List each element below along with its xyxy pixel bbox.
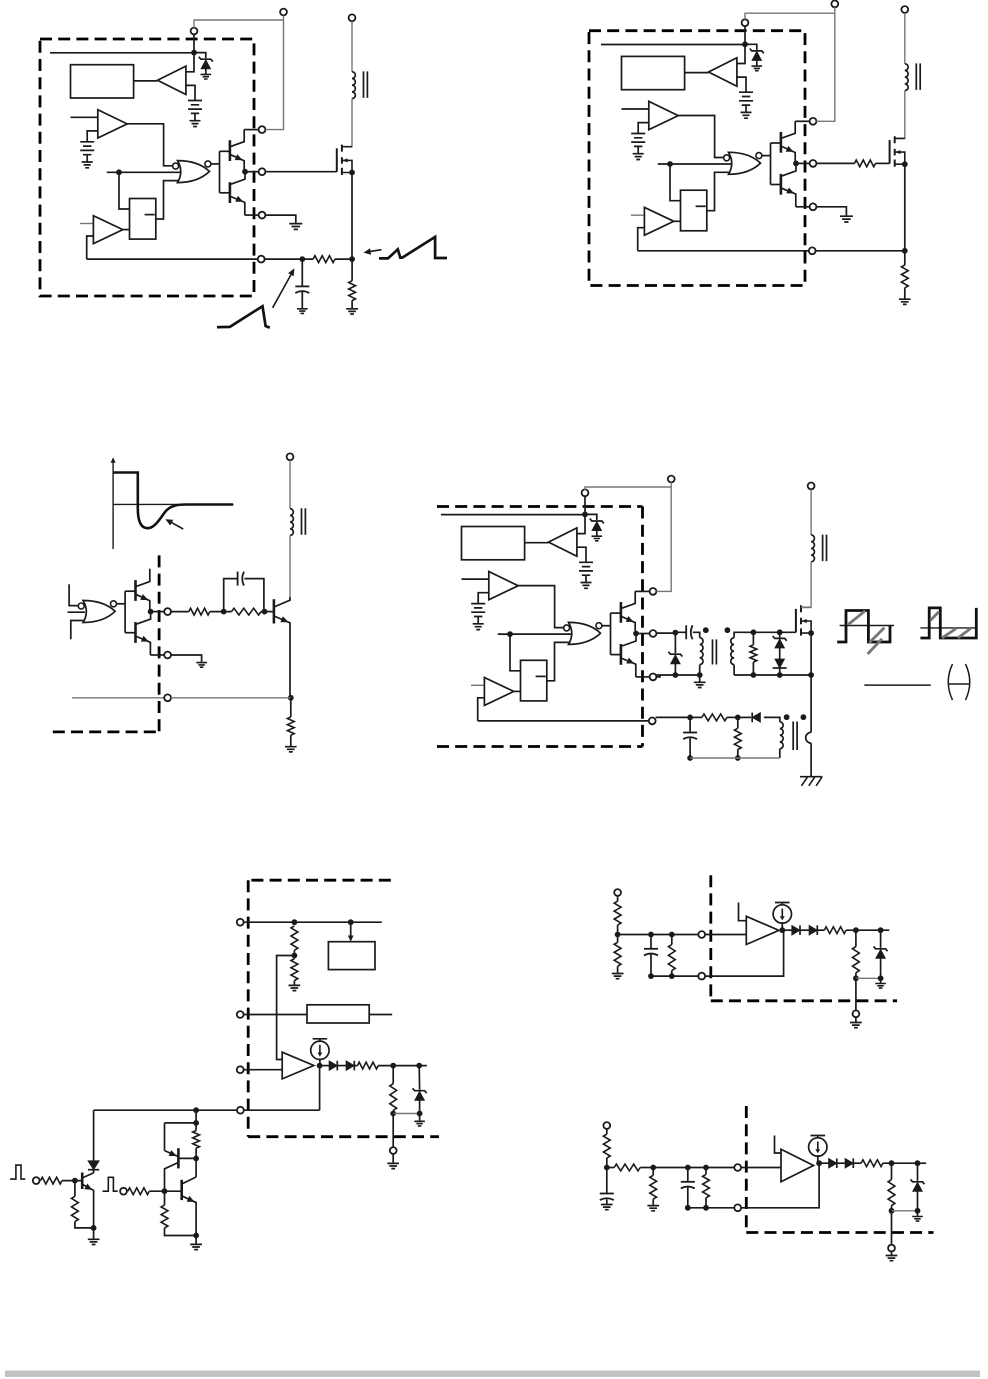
C4 lower stub xyxy=(689,738,691,758)
graph pointer arrowhead xyxy=(165,519,173,525)
U1 reference block xyxy=(71,65,134,98)
secondary top rail xyxy=(734,632,796,638)
U2 node osc xyxy=(667,161,673,167)
wire sense resistor xyxy=(351,259,353,281)
node Z3 bottom xyxy=(417,1111,423,1117)
transistor Q10 base bar xyxy=(177,1148,180,1168)
ground (R27) xyxy=(647,1206,659,1211)
zener Z5 xyxy=(911,1179,925,1191)
U2 VCC pin stub xyxy=(795,120,809,122)
U2 lower base wire xyxy=(771,184,781,186)
wire J3 to VCC pin xyxy=(816,7,834,121)
U2 wire osc to latch xyxy=(670,164,681,201)
U4 transistor Q1 base bar xyxy=(620,602,623,623)
wire source to sense node xyxy=(904,164,906,251)
U1 comparator1 + input xyxy=(71,116,98,118)
ground (C6) xyxy=(601,1205,613,1210)
node RT divider xyxy=(292,919,298,925)
resistor R24 xyxy=(853,947,860,973)
U3 Q6 collector xyxy=(137,612,151,625)
U4 comparator 2 xyxy=(484,678,513,706)
resistor R28 xyxy=(703,1174,710,1197)
wire CS winding to earth xyxy=(810,743,812,777)
U2 OUT pin xyxy=(810,160,817,167)
resistor R1 xyxy=(313,256,335,263)
gate waveform axis 1 xyxy=(840,625,894,627)
U5 boundary left (dashed) xyxy=(247,880,250,1136)
wire R23 to clamp 6a xyxy=(846,929,889,931)
resistor R3 xyxy=(855,160,876,167)
wire OUT pin to gate xyxy=(265,171,336,173)
U1 gate output wire xyxy=(211,163,220,165)
wire to R24 xyxy=(855,930,857,946)
U4 oscillator input wire xyxy=(498,633,571,635)
R7 ground stem xyxy=(290,735,292,746)
ground (Z3) xyxy=(414,1121,425,1126)
J11 to R25 xyxy=(606,1129,608,1134)
wire to R16 xyxy=(74,1181,76,1197)
timing block xyxy=(307,1005,369,1023)
node clamp 6a-1 xyxy=(853,927,859,933)
Z4 ground stem xyxy=(880,978,882,983)
U2 Q2 emitter xyxy=(782,188,796,207)
U4 comparator 1 xyxy=(489,572,518,600)
U2 current sense line xyxy=(638,250,809,252)
transformer terminal J4 xyxy=(901,6,908,13)
graph axis arrowhead xyxy=(111,457,116,463)
U2 buffer bias wire xyxy=(737,77,746,92)
waveform 1 hatch xyxy=(848,611,884,654)
U6 boundary left (dashed) xyxy=(709,875,712,1001)
U4 OUT pin xyxy=(650,630,657,637)
FB line 6a xyxy=(618,934,699,936)
U2 zener ground stem xyxy=(756,61,758,66)
node Q9 base xyxy=(72,1178,78,1184)
sync pin wire xyxy=(244,1069,283,1071)
U2 oscillator input wire xyxy=(658,163,731,165)
wire D7 to D8 xyxy=(800,929,809,931)
U6 lower pin xyxy=(853,1010,860,1017)
graph vertical axis xyxy=(112,460,114,549)
U2 NOR gate xyxy=(724,152,762,174)
resistor R25 xyxy=(603,1134,610,1158)
U4 PWM latch xyxy=(521,660,547,701)
U2 Q2 collector xyxy=(782,163,796,176)
U3 gate output wire xyxy=(117,603,126,605)
U3 driver base trunk xyxy=(124,591,126,633)
wire CS pin to sense node xyxy=(816,250,905,252)
U1 lower base wire xyxy=(220,192,230,194)
divider terminal J10 xyxy=(614,889,621,896)
transformer T2 primary xyxy=(905,64,908,91)
wire R18 to Q11 base xyxy=(149,1190,181,1192)
U5 boundary top (dashed) xyxy=(251,879,391,882)
FB pin to amp 6b xyxy=(741,1167,781,1169)
earth ground (hatched) xyxy=(800,777,822,786)
wire R13 to clamp xyxy=(378,1065,427,1067)
U3 Q6 emitter arrow xyxy=(141,636,149,642)
node clamp 6b-2 xyxy=(915,1160,921,1166)
back-to-back zener Z2b xyxy=(773,659,787,668)
R28 upper stub xyxy=(705,1168,707,1175)
Q11 collector diag xyxy=(183,1177,196,1184)
Z3 ground stem xyxy=(419,1114,421,1122)
resistor R11 xyxy=(291,926,298,950)
U4 boundary right (dashed) xyxy=(641,507,644,747)
C7 lower stub xyxy=(687,1188,689,1208)
footer separator bar xyxy=(5,1371,980,1378)
rail ground stem xyxy=(699,675,701,682)
rail node Z1 xyxy=(673,672,679,678)
U2 comparator2 + stub xyxy=(631,214,644,216)
MOSFET Q8 xyxy=(796,605,814,636)
resistor R12 xyxy=(291,959,298,981)
R10 lower stub xyxy=(737,750,739,759)
U5 boundary bottom (dashed) xyxy=(248,1135,439,1138)
resistor R13 xyxy=(358,1062,379,1069)
U2 Q1 collector xyxy=(782,121,795,138)
node Q10 base xyxy=(193,1156,199,1162)
wire speedup cap right xyxy=(244,579,264,612)
U1 comparator 1 xyxy=(98,110,127,138)
wire to oscillator block xyxy=(350,922,352,937)
A2 reference stub xyxy=(739,903,747,921)
node R24 bottom xyxy=(853,975,859,981)
capacitor C4 xyxy=(683,733,697,740)
node base network 1 xyxy=(221,609,227,615)
U1 Q1 emitter arrow xyxy=(235,154,243,160)
U4 lower base wire xyxy=(611,654,621,656)
ground (Q11) xyxy=(190,1244,202,1249)
U2 IC boundary (dashed) xyxy=(589,31,805,286)
U4 reference battery 1 xyxy=(579,562,593,588)
rail node T4p xyxy=(697,672,703,678)
U1 CS pin xyxy=(258,256,265,263)
U3 lower base wire xyxy=(125,632,135,634)
node R28 bottom xyxy=(703,1205,709,1211)
T6 secondary phase dot xyxy=(784,714,790,720)
U2 wire rail to buffer xyxy=(737,44,745,63)
wire R6 to node xyxy=(261,611,265,613)
node CS filter 2 xyxy=(735,715,741,721)
rail node R8 bottom xyxy=(751,672,757,678)
U1 VREF pin xyxy=(191,28,198,35)
U1 comparator2 - input wire xyxy=(87,236,94,259)
I3 to output node xyxy=(817,1155,819,1163)
wire source to sense node xyxy=(351,173,353,260)
U2 comparator1 + input xyxy=(622,108,649,110)
wire D5 to R13 xyxy=(354,1065,357,1067)
U2 internal VREF rail xyxy=(601,44,745,46)
U4 driver output node xyxy=(633,631,639,637)
U4 gate output wire xyxy=(602,625,611,627)
comp pin to output node xyxy=(705,930,784,976)
wire R15 to Q9 base xyxy=(62,1180,82,1182)
Q7 emitter arrow xyxy=(280,616,288,622)
diode D6 xyxy=(88,1161,99,1170)
clamp bottom link 6b xyxy=(892,1210,918,1212)
U2 buffer amplifier xyxy=(709,58,737,86)
node osc block xyxy=(348,919,354,925)
T4 secondary phase dot xyxy=(725,627,731,633)
U1 Q1 collector xyxy=(231,130,244,147)
wire R9 to node xyxy=(727,716,738,718)
wire J2 to primary xyxy=(351,21,353,72)
U2 driver base trunk xyxy=(770,143,772,185)
U4 buffer bias wire xyxy=(577,547,586,562)
U2 comparator2 - input wire xyxy=(638,228,645,251)
wire R3 to gate xyxy=(876,162,890,164)
U4 Q1 emitter arrow xyxy=(626,616,634,622)
U4 reference block xyxy=(462,527,525,560)
filter waveform pointer arrowhead xyxy=(288,268,294,276)
T4 primary phase dot xyxy=(703,627,709,633)
U3 transistor Q6 base bar xyxy=(134,622,137,643)
U1 Q2 emitter arrow xyxy=(235,196,243,202)
wire B left down xyxy=(164,1123,166,1151)
R21 ground stem xyxy=(617,966,619,973)
node C7 top xyxy=(685,1165,691,1171)
ground (R2) xyxy=(346,309,358,314)
R8 lower stub xyxy=(752,662,754,675)
transistor Q7 base bar xyxy=(273,599,276,623)
U1 Q2 emitter xyxy=(231,197,245,216)
node base network 2 xyxy=(262,609,268,615)
node Z5 bottom xyxy=(915,1208,921,1214)
T3 core xyxy=(302,508,306,535)
gate waveform 1 xyxy=(837,611,890,643)
wire speedup cap left xyxy=(224,579,238,612)
U4 node VREF xyxy=(582,512,588,518)
wire source down xyxy=(810,633,812,675)
U4 GND pin stub xyxy=(636,676,650,678)
node Q9 emitter gnd xyxy=(91,1225,97,1231)
node C5 top xyxy=(648,932,654,938)
VCC supply terminal J6 xyxy=(668,476,675,483)
waveform pointer line xyxy=(367,250,382,252)
pulse input terminal J9 xyxy=(120,1188,127,1195)
transformer T3 primary xyxy=(290,509,293,536)
wire to clamp xyxy=(779,632,781,637)
wire GND pin to ground xyxy=(265,215,295,223)
secondary bottom rail xyxy=(734,674,811,676)
wire primary to drain xyxy=(895,91,905,139)
U1 ground (zener) xyxy=(201,74,212,79)
diode D9 xyxy=(829,1158,837,1168)
U3 Q5 collector xyxy=(137,569,150,587)
U2 CS pin xyxy=(809,247,816,254)
node FB 6a xyxy=(615,932,621,938)
wire node to R9 xyxy=(690,716,702,718)
error amplifier A2 xyxy=(746,916,779,944)
U1 reference battery 1 xyxy=(188,101,202,127)
U3 OUT pin xyxy=(164,608,171,615)
R21 upper stub xyxy=(617,935,619,943)
resistor R29 xyxy=(861,1160,883,1167)
wire A1 out to D4 xyxy=(320,1065,330,1067)
wire filter cap xyxy=(301,259,303,286)
U1 OUT pin stub xyxy=(245,171,259,173)
R26-R27 link xyxy=(640,1167,653,1169)
T2 core xyxy=(916,63,920,90)
R24 to node xyxy=(855,973,857,979)
wire to zener Z5 xyxy=(917,1163,919,1181)
U1 IC boundary (dashed) xyxy=(40,39,254,296)
Q9 ground stem xyxy=(93,1228,95,1239)
U3 boundary bottom edge (dashed) xyxy=(53,731,159,734)
T1 core xyxy=(364,71,368,98)
filter waveform pointer line xyxy=(273,275,291,308)
ground (Z5) xyxy=(912,1217,923,1222)
R27 upper stub xyxy=(652,1168,654,1176)
U2 comparator1 output wire xyxy=(678,116,723,158)
T4 core xyxy=(713,639,717,664)
U4 wire to zener xyxy=(585,514,597,520)
wire A2 out to D7 xyxy=(782,929,792,931)
ground (6a lower pin) xyxy=(850,1023,862,1028)
wire J7 to main primary xyxy=(810,489,812,535)
C5 upper stub xyxy=(650,935,652,949)
T6 core xyxy=(793,722,797,751)
U4 zener ground stem xyxy=(596,531,598,536)
diode D3 xyxy=(752,713,760,723)
U4 VREF pin xyxy=(582,489,589,496)
U4 latch Q-bar mark xyxy=(536,675,546,677)
Q9 emitter arrow xyxy=(84,1184,92,1190)
resistor R19 xyxy=(161,1205,168,1228)
U4 VCC pin stub xyxy=(635,590,649,592)
ground (C1) xyxy=(297,309,308,314)
U2 OUT pin stub xyxy=(796,162,810,164)
wire OUT pin to coupling network xyxy=(656,631,686,634)
clamp bottom stub xyxy=(779,668,781,675)
U2 reference battery 2 xyxy=(631,134,645,160)
U5 lower pin xyxy=(390,1147,397,1154)
MOSFET Q3 xyxy=(337,145,355,176)
U3 transistor Q5 base bar xyxy=(134,580,137,601)
Z3 stem xyxy=(419,1100,421,1113)
node CS filter 1 xyxy=(687,715,693,721)
Q11 ground stem xyxy=(195,1236,197,1245)
node R14 bottom xyxy=(390,1111,396,1117)
U2 VCC pin xyxy=(810,118,817,125)
U1 wire to zener xyxy=(194,53,206,59)
sync comparator A1 xyxy=(282,1052,314,1079)
bottom line 6b xyxy=(688,1207,735,1209)
wire J6 to VCC pin xyxy=(656,482,671,591)
node Q11 base xyxy=(162,1188,168,1194)
current source I3 xyxy=(809,1136,827,1157)
C6 upper stub xyxy=(606,1168,608,1194)
wire to R30 xyxy=(891,1163,893,1179)
gate waveform axis 2 xyxy=(920,627,977,629)
U4 Q1 collector xyxy=(622,591,635,608)
wire D4 to D5 xyxy=(337,1065,346,1067)
U1 VCC pin xyxy=(259,126,266,133)
node C7 bottom xyxy=(685,1205,691,1211)
D6 to Q9 collector xyxy=(93,1170,95,1173)
oscillator block arrow xyxy=(348,936,354,942)
U4 Q1 emitter xyxy=(622,617,635,634)
R25 to node xyxy=(606,1158,608,1168)
ground (IC GND) xyxy=(289,224,302,230)
U3 sense pin xyxy=(164,694,171,701)
sync line left xyxy=(94,1109,237,1111)
wire node to pin 6a xyxy=(855,978,857,1010)
resistor R27 xyxy=(650,1175,657,1199)
wire C3 to T4 primary xyxy=(693,632,700,638)
emitter sense line right xyxy=(171,697,291,699)
U2 comparator1 - input wire xyxy=(638,123,649,134)
node R27 top xyxy=(650,1165,656,1171)
U2 reference battery 1 xyxy=(739,92,753,118)
R4 ground stem xyxy=(904,288,906,299)
U1 comparator2 output wire xyxy=(123,229,130,231)
U2 transistor Q2 base bar xyxy=(780,174,783,195)
resistor R20 xyxy=(614,901,621,925)
U3 Q5 emitter arrow xyxy=(140,594,148,600)
bottom line 6a xyxy=(651,975,698,977)
U2 comparator 2 xyxy=(644,207,673,235)
Q7 collector xyxy=(275,597,290,607)
T6 bottom stub xyxy=(779,749,781,758)
clamp bottom link 6a xyxy=(856,977,881,979)
U3 Q5 emitter xyxy=(137,595,150,612)
U1: PWM controller IC internal block xyxy=(50,28,265,263)
U4 comparator2 output wire xyxy=(514,690,521,692)
wire to zener Z4 xyxy=(880,930,882,948)
node Z4 bottom xyxy=(878,975,884,981)
wire to R14 xyxy=(392,1066,394,1084)
transformer terminal J7 xyxy=(808,483,815,490)
U2 ground (zener) xyxy=(752,66,763,71)
U3 gate bottom input stub xyxy=(71,621,84,640)
resistor R26 xyxy=(614,1164,640,1171)
wire primary to drain xyxy=(342,99,352,147)
CS filter waveform xyxy=(217,306,270,328)
diode D8 xyxy=(809,925,817,935)
node clamp 6b-1 xyxy=(889,1160,895,1166)
graph pointer line xyxy=(169,521,183,529)
sense transformer T6 secondary xyxy=(780,722,783,749)
U2 Q2 emitter arrow xyxy=(786,188,794,194)
wire to zener Z3 xyxy=(418,1066,420,1090)
pulse input glyph 2 xyxy=(103,1177,118,1191)
U4 latch output wire xyxy=(547,642,569,680)
capacitor C3 (coupling) xyxy=(686,625,692,639)
collector current waveform xyxy=(113,473,233,529)
R11 to tap xyxy=(293,950,295,959)
wire J5 to primary xyxy=(289,460,291,509)
wire J1 to VCC pin xyxy=(265,15,283,129)
T6 primary phase dot xyxy=(801,714,807,720)
resistor R17 xyxy=(193,1131,200,1149)
U2 reference block xyxy=(622,56,685,89)
node A1 output xyxy=(317,1063,323,1069)
U4 reference battery 2 xyxy=(471,604,485,630)
wire source to CS winding xyxy=(810,675,812,732)
U2 latch output wire xyxy=(707,172,729,210)
waveform pointer arrowhead xyxy=(364,248,372,254)
transformer T1 primary xyxy=(352,72,355,99)
U4 wire block to buffer tip xyxy=(525,542,549,544)
U1 oscillator input wire xyxy=(107,171,180,173)
node C5 bottom xyxy=(648,973,654,979)
wire B left xyxy=(165,1122,197,1124)
ground (6b lower pin) xyxy=(886,1256,898,1261)
wire sync to D6 xyxy=(93,1110,95,1160)
ground (Z4) xyxy=(875,984,886,989)
